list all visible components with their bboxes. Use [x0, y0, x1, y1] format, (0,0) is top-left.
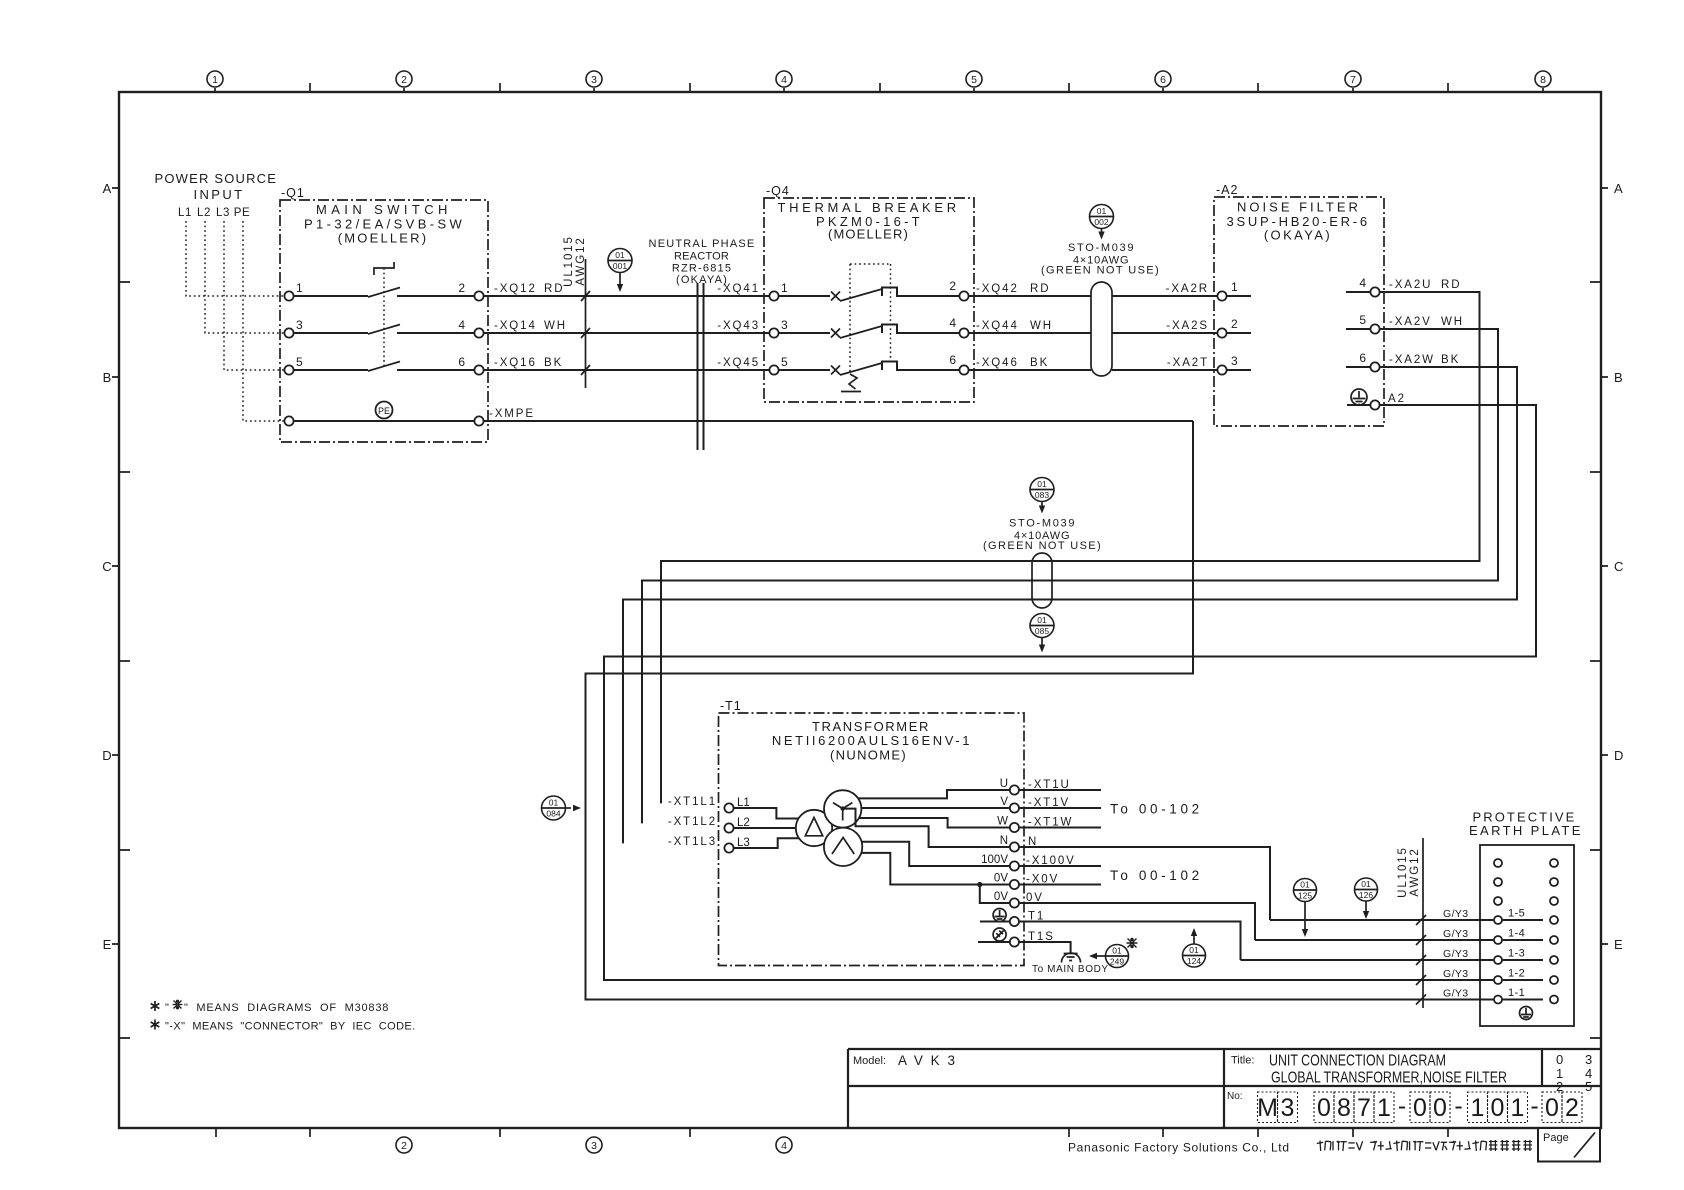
- transformer winding tertiary: [824, 828, 862, 866]
- balloon 01/126: [1355, 878, 1378, 901]
- svg-text:2: 2: [401, 74, 407, 86]
- svg-text:-XQ16: -XQ16: [494, 357, 537, 369]
- svg-text:085: 085: [1035, 626, 1049, 636]
- svg-text:-T1: -T1: [720, 699, 742, 713]
- transformer T1 enclosure: [719, 713, 1025, 966]
- svg-text:2: 2: [949, 279, 956, 293]
- svg-text:STO-M039: STO-M039: [1009, 518, 1075, 530]
- filter pin 6: [1346, 366, 1370, 368]
- svg-text:084: 084: [546, 809, 560, 819]
- svg-text:5: 5: [781, 355, 788, 369]
- svg-text:7: 7: [1357, 1094, 1371, 1122]
- svg-text:Model:: Model:: [853, 1055, 886, 1067]
- noise filter A2 enclosure: [1214, 197, 1384, 426]
- svg-text:To 00-102: To 00-102: [1110, 802, 1203, 817]
- svg-text:NEUTRAL PHASE: NEUTRAL PHASE: [649, 238, 756, 250]
- svg-text:0: 0: [1433, 1094, 1447, 1122]
- wire L1 input: [186, 221, 284, 296]
- svg-text:EARTH PLATE: EARTH PLATE: [1469, 823, 1583, 838]
- svg-text:3: 3: [781, 318, 788, 332]
- svg-text:RD: RD: [1441, 279, 1461, 291]
- wire -XQ44 WH: [969, 332, 1091, 334]
- svg-text:A: A: [1614, 181, 1623, 196]
- ground PE terminal symbol: [376, 402, 393, 419]
- plate spare holes row1: [1494, 859, 1502, 867]
- svg-text:01: 01: [1097, 206, 1107, 216]
- top ticks: [215, 83, 1543, 92]
- revision digits: [1556, 1052, 1592, 1094]
- svg-text:124: 124: [1187, 956, 1201, 966]
- svg-text:1: 1: [296, 281, 303, 295]
- svg-text:-XQ46: -XQ46: [976, 357, 1019, 369]
- wire N output from star point: [843, 809, 1010, 847]
- svg-text:C: C: [102, 559, 111, 574]
- filter pin 1: [1217, 291, 1226, 300]
- SEG2: [969, 205, 1218, 377]
- svg-text:G/Y3: G/Y3: [1443, 948, 1469, 960]
- wire filter ground A2 to earth plate: [604, 405, 1536, 980]
- svg-text:G/Y3: G/Y3: [1443, 928, 1469, 940]
- wire crossing slash row3: [581, 365, 590, 375]
- balloon 01/002: [1090, 205, 1114, 229]
- terminal U: [1010, 785, 1019, 794]
- svg-text:4: 4: [949, 316, 956, 330]
- svg-text:-XA2T: -XA2T: [1167, 357, 1209, 369]
- wire 100V output: [862, 842, 1010, 866]
- svg-text:100V: 100V: [981, 854, 1008, 866]
- wire -XA2T: [1112, 369, 1217, 371]
- svg-text:E: E: [103, 937, 112, 952]
- wire T1 to plate 1-3: [1241, 959, 1494, 961]
- svg-text:0: 0: [1413, 1094, 1427, 1122]
- svg-text:4: 4: [781, 1140, 787, 1152]
- svg-text:-: -: [1398, 1092, 1406, 1120]
- filter ground pin A2: [1347, 404, 1370, 406]
- svg-text:-A2: -A2: [1216, 183, 1238, 197]
- svg-text:-XT1L3: -XT1L3: [668, 836, 717, 848]
- wire -XMPE to earth plate: [586, 421, 1494, 1000]
- svg-text:-XT1L1: -XT1L1: [668, 796, 717, 808]
- svg-text:TRANSFORMER: TRANSFORMER: [812, 719, 932, 734]
- svg-text:UNIT CONNECTION DIAGRAM: UNIT CONNECTION DIAGRAM: [1269, 1053, 1446, 1070]
- wire -XA2V WH: [642, 329, 1498, 823]
- svg-text:3: 3: [1231, 354, 1238, 368]
- svg-text:2: 2: [1565, 1094, 1579, 1122]
- svg-text:-Q4: -Q4: [766, 184, 790, 198]
- balloon 01/083: [1030, 478, 1054, 502]
- thermal breaker Q4 enclosure: [764, 198, 974, 402]
- svg-text:C: C: [1614, 559, 1623, 574]
- svg-text:V: V: [1000, 796, 1008, 808]
- filter pin 3: [1217, 365, 1226, 374]
- svg-text:STO-M039: STO-M039: [1068, 242, 1134, 254]
- wire 0V to plate 1-4: [1255, 939, 1493, 941]
- svg-text:001: 001: [613, 261, 627, 271]
- filter pin 2: [1217, 328, 1226, 337]
- terminal N: [1010, 842, 1019, 851]
- terminal T1: [1010, 917, 1019, 926]
- svg-text:M: M: [1257, 1094, 1278, 1122]
- balloon 01/085: [1030, 614, 1054, 638]
- wire -XQ16 BK: [484, 369, 769, 371]
- svg-text:-XQ12: -XQ12: [494, 283, 537, 295]
- svg-text:2: 2: [401, 1140, 407, 1152]
- WIRESEG1: [484, 235, 1193, 450]
- left row letters A-E: [102, 181, 111, 952]
- svg-text:WH: WH: [544, 320, 567, 332]
- switch Q1 pole 1-2: [284, 291, 293, 300]
- note mark kome symbol: [1127, 939, 1138, 948]
- wire -XA2S: [1112, 332, 1217, 334]
- svg-text:3: 3: [1585, 1052, 1592, 1067]
- svg-text:249: 249: [1110, 957, 1124, 967]
- breaker Q4 pole 1-2: [769, 291, 778, 300]
- svg-text:3: 3: [296, 318, 303, 332]
- svg-text:5: 5: [1585, 1079, 1592, 1094]
- wire -XMPE: [484, 420, 1193, 422]
- svg-text:RZR-6815: RZR-6815: [672, 263, 732, 275]
- svg-text:1: 1: [1231, 280, 1238, 294]
- switch Q1 pole 3-4: [284, 328, 293, 337]
- svg-text:0: 0: [1556, 1052, 1563, 1067]
- svg-text:5: 5: [296, 355, 303, 369]
- svg-text:0V: 0V: [994, 873, 1008, 885]
- terminal 0V second: [1010, 898, 1019, 907]
- svg-text:4: 4: [458, 318, 465, 332]
- svg-text:WH: WH: [1441, 316, 1464, 328]
- svg-text:E: E: [1614, 937, 1623, 952]
- svg-text:0V: 0V: [994, 891, 1008, 903]
- right ticks: [1590, 188, 1608, 1038]
- svg-text:8: 8: [1337, 1094, 1351, 1122]
- svg-text:RD: RD: [544, 283, 564, 295]
- svg-text:6: 6: [1160, 74, 1166, 86]
- plate spare holes row3: [1494, 897, 1502, 905]
- wire crossing slash row2: [581, 328, 590, 338]
- svg-text:-Q1: -Q1: [281, 186, 305, 200]
- wire crossing slash row1: [581, 291, 590, 301]
- wire spec UL1015 AWG12 boundary line (lower): [1422, 838, 1424, 1008]
- svg-text:01: 01: [1112, 946, 1122, 956]
- EARTHPLATE: [1241, 810, 1584, 1027]
- terminal W: [1010, 823, 1019, 832]
- transformer winding delta: [796, 810, 832, 846]
- svg-text:8: 8: [1540, 74, 1546, 86]
- svg-text:No:: No:: [1227, 1091, 1243, 1102]
- wire spec UL1015 AWG12 boundary line: [585, 259, 587, 388]
- svg-text:-XQ42: -XQ42: [976, 283, 1019, 295]
- title block borders: [848, 1049, 1600, 1128]
- wire -XQ14 WH: [484, 332, 769, 334]
- balloon 01/249 with note mark: [1106, 945, 1129, 968]
- svg-text:Title:: Title:: [1231, 1055, 1254, 1067]
- wire U output: [858, 790, 1010, 798]
- breaker Q4 pole 5-6: [769, 365, 778, 374]
- svg-text:A2: A2: [1388, 393, 1406, 405]
- TRANSFORMER: [542, 699, 1271, 975]
- svg-text:AWG12: AWG12: [575, 236, 587, 285]
- svg-text:01: 01: [1189, 945, 1199, 955]
- border frame: [119, 92, 1601, 1128]
- svg-text:4: 4: [781, 74, 787, 86]
- svg-text:-: -: [1454, 1092, 1462, 1120]
- junction 0V node: [977, 882, 982, 887]
- wire L1 to primary: [734, 808, 799, 819]
- svg-text:THERMAL BREAKER: THERMAL BREAKER: [778, 200, 961, 215]
- svg-text:PE: PE: [234, 207, 251, 219]
- terminal T1S: [1010, 937, 1019, 946]
- svg-text:BK: BK: [1441, 354, 1460, 366]
- switch Q1 operating handle: [374, 262, 394, 275]
- ground protective earth symbol on filter: [1351, 389, 1367, 405]
- wire -XQ46 BK: [969, 369, 1091, 371]
- svg-text:2: 2: [458, 281, 465, 295]
- svg-text:01: 01: [549, 798, 559, 808]
- wire -XA2W BK: [623, 367, 1517, 843]
- wire PE input: [243, 221, 284, 421]
- terminal V: [1010, 803, 1019, 812]
- filter pin 5: [1346, 328, 1370, 330]
- svg-text:NOISE FILTER: NOISE FILTER: [1237, 200, 1361, 215]
- svg-text:126: 126: [1359, 890, 1373, 900]
- wire L3 to primary: [734, 838, 799, 848]
- svg-text:3: 3: [591, 74, 597, 86]
- terminal 0V: [1010, 880, 1019, 889]
- svg-text:6: 6: [949, 353, 956, 367]
- svg-text:2: 2: [1231, 317, 1238, 331]
- svg-text:01: 01: [1037, 615, 1047, 625]
- svg-text:-XQ44: -XQ44: [976, 320, 1019, 332]
- svg-text:(GREEN NOT USE): (GREEN NOT USE): [1041, 265, 1159, 277]
- svg-text:1-1: 1-1: [1508, 987, 1525, 999]
- svg-text:W: W: [997, 816, 1008, 828]
- svg-text:"-X" MEANS "CONNECTOR" BY: "-X" MEANS "CONNECTOR" BY IEC CODE.: [165, 1021, 416, 1033]
- wire N to plate 1-5: [1270, 919, 1493, 921]
- balloon 01/084: [542, 796, 566, 820]
- switch Q1 pole 5-6: [284, 365, 293, 374]
- svg-text:3: 3: [591, 1140, 597, 1152]
- svg-text:-XA2U: -XA2U: [1389, 279, 1432, 291]
- svg-text:-XQ41: -XQ41: [717, 283, 760, 295]
- svg-text:GLOBAL TRANSFORMER,NOISE FILTE: GLOBAL TRANSFORMER,NOISE FILTER: [1271, 1070, 1507, 1087]
- ground symbol on plate: [1520, 1007, 1533, 1020]
- wire 0V second tap: [980, 885, 1010, 904]
- svg-text:1-2: 1-2: [1508, 968, 1525, 980]
- breaker Q4 linkage (dotted): [850, 264, 891, 374]
- wire -XA2R: [1112, 295, 1217, 297]
- cable STO-M039 sleeve: [1091, 282, 1112, 376]
- svg-text:WH: WH: [1030, 320, 1053, 332]
- svg-text:1: 1: [1377, 1094, 1391, 1122]
- ROUTES: [586, 279, 1537, 1000]
- svg-text:AWG12: AWG12: [1409, 847, 1421, 896]
- svg-text:INPUT: INPUT: [194, 187, 245, 202]
- svg-text:Panasonic Factory Solutions Co: Panasonic Factory Solutions Co., Ltd: [1068, 1141, 1289, 1155]
- FILTER: [1214, 183, 1406, 426]
- svg-text:To 00-102: To 00-102: [1110, 868, 1203, 883]
- svg-text:(MOELLER): (MOELLER): [338, 231, 429, 246]
- top zone numbers 1-8: [207, 71, 1551, 87]
- main switch Q1 enclosure: [280, 200, 488, 442]
- svg-text:3: 3: [1281, 1094, 1295, 1122]
- transformer winding wye: [824, 790, 861, 827]
- plate spare holes row2: [1494, 878, 1502, 886]
- svg-text:G/Y3: G/Y3: [1443, 908, 1469, 920]
- wire 0V output: [861, 853, 1010, 885]
- wire V output: [861, 807, 1009, 809]
- ground symbol at T1S (noiseless): [993, 928, 1006, 941]
- svg-text:PE: PE: [378, 406, 390, 416]
- svg-text:REACTOR: REACTOR: [674, 251, 730, 263]
- filter pin 4: [1346, 291, 1370, 293]
- reactor RZR-6815 core bars: [698, 283, 704, 450]
- svg-text:G/Y3: G/Y3: [1443, 968, 1469, 980]
- svg-text:01: 01: [1300, 880, 1310, 890]
- svg-text:1-3: 1-3: [1508, 948, 1525, 960]
- svg-text:6: 6: [1359, 351, 1366, 365]
- breaker Q4 pole 3-4: [769, 328, 778, 337]
- svg-text:1: 1: [781, 281, 788, 295]
- terminal 100V: [1010, 861, 1019, 870]
- svg-text:BK: BK: [544, 357, 563, 369]
- svg-text:1: 1: [1511, 1094, 1525, 1122]
- note 2: [151, 1020, 160, 1030]
- svg-text:RD: RD: [1030, 283, 1050, 295]
- svg-text:5: 5: [971, 74, 977, 86]
- svg-text:-XT1L2: -XT1L2: [668, 816, 717, 828]
- svg-text:A: A: [103, 181, 112, 196]
- svg-text:NETII6200AULS16ENV-1: NETII6200AULS16ENV-1: [772, 733, 972, 748]
- svg-text:1: 1: [212, 74, 218, 86]
- svg-text:-XA2W: -XA2W: [1389, 354, 1435, 366]
- protective earth plate box: [1480, 845, 1574, 1026]
- company name japanese (drawn glyphs): [1317, 1140, 1532, 1151]
- svg-text:-XQ45: -XQ45: [717, 357, 760, 369]
- svg-text:7: 7: [1350, 74, 1356, 86]
- POWERINPUT: [155, 171, 285, 421]
- svg-text:1-4: 1-4: [1508, 928, 1525, 940]
- svg-text:0: 0: [1491, 1094, 1505, 1122]
- NOTES: [151, 1001, 416, 1033]
- svg-text:-XMPE: -XMPE: [489, 408, 535, 420]
- svg-text:(OKAYA): (OKAYA): [1264, 228, 1332, 243]
- balloon 01/001: [608, 249, 632, 273]
- svg-text:UL1015: UL1015: [1397, 846, 1409, 898]
- switch Q1 linkage (dotted): [383, 268, 385, 368]
- wire L2 to primary: [734, 827, 796, 829]
- svg-text:B: B: [1614, 370, 1623, 385]
- svg-text:6: 6: [458, 355, 465, 369]
- svg-text:P1-32/EA/SVB-SW: P1-32/EA/SVB-SW: [304, 217, 464, 232]
- wire PE through: [284, 416, 293, 425]
- svg-text:-XA2R: -XA2R: [1166, 283, 1209, 295]
- TITLEBLOCK: [848, 1049, 1600, 1162]
- wire L2 input: [205, 221, 284, 333]
- ground to main body symbol: [1062, 953, 1081, 963]
- svg-text:L2: L2: [197, 207, 211, 219]
- svg-text:Page: Page: [1543, 1132, 1569, 1144]
- wire -XQ12 RD: [484, 295, 769, 297]
- balloon 01/125: [1294, 879, 1317, 902]
- svg-text:-XA2V: -XA2V: [1389, 316, 1432, 328]
- svg-text:0: 0: [1317, 1094, 1331, 1122]
- svg-text:01: 01: [1037, 479, 1047, 489]
- svg-text:1: 1: [1471, 1094, 1485, 1122]
- svg-text:" MEANS DIAGRAMS OF M30838: " MEANS DIAGRAMS OF M30838: [184, 1002, 389, 1014]
- svg-text:01: 01: [1361, 879, 1371, 889]
- wire -XQ42 RD: [969, 295, 1091, 297]
- svg-text:MAIN SWITCH: MAIN SWITCH: [316, 202, 452, 217]
- svg-text:To MAIN BODY: To MAIN BODY: [1032, 964, 1109, 975]
- Q4BOX: [764, 184, 974, 402]
- svg-text:(MOELLER): (MOELLER): [828, 227, 910, 242]
- cable STO-M039 sleeve (mid): [1032, 553, 1052, 608]
- Q1BOX: [280, 186, 488, 442]
- wire -XA2U RD: [661, 292, 1480, 803]
- svg-text:POWER SOURCE: POWER SOURCE: [155, 171, 278, 186]
- svg-text:-: -: [1530, 1092, 1538, 1120]
- svg-text:0: 0: [1545, 1094, 1559, 1122]
- svg-text:083: 083: [1035, 490, 1049, 500]
- svg-text:UL1015: UL1015: [563, 235, 575, 287]
- bottom zone numbers 2-4: [396, 1137, 792, 1153]
- right row letters A-E: [1614, 181, 1623, 952]
- svg-text:BK: BK: [1030, 357, 1049, 369]
- svg-text:(NUNOME): (NUNOME): [830, 748, 908, 763]
- svg-text:125: 125: [1298, 891, 1312, 901]
- svg-text:B: B: [103, 370, 112, 385]
- bottom ticks: [216, 1128, 1448, 1137]
- breaker Q4 trip release: [849, 374, 857, 389]
- svg-text:U: U: [1000, 778, 1008, 790]
- svg-text:L3: L3: [216, 207, 230, 219]
- balloon 01/124: [1183, 944, 1206, 967]
- svg-text:-XA2S: -XA2S: [1166, 320, 1209, 332]
- svg-text:D: D: [1614, 748, 1623, 763]
- svg-text:-XQ43: -XQ43: [717, 320, 760, 332]
- svg-text:N: N: [1000, 835, 1008, 847]
- svg-text:(GREEN NOT USE): (GREEN NOT USE): [983, 540, 1101, 552]
- svg-text:": ": [165, 1002, 170, 1014]
- svg-text:01: 01: [615, 250, 625, 260]
- svg-text:4: 4: [1359, 276, 1366, 290]
- svg-text:L1: L1: [178, 207, 192, 219]
- svg-text:D: D: [102, 748, 111, 763]
- ground symbol at T1: [993, 909, 1006, 922]
- wire W output: [859, 818, 1010, 828]
- svg-text:002: 002: [1094, 217, 1108, 227]
- svg-text:5: 5: [1359, 313, 1366, 327]
- svg-text:1-5: 1-5: [1508, 908, 1525, 920]
- svg-text:G/Y3: G/Y3: [1443, 988, 1469, 1000]
- note 1: [151, 1001, 160, 1011]
- page box: [1538, 1128, 1600, 1162]
- left ticks: [112, 188, 130, 1038]
- svg-text:-XQ14: -XQ14: [494, 320, 537, 332]
- wire L3 input: [224, 221, 284, 370]
